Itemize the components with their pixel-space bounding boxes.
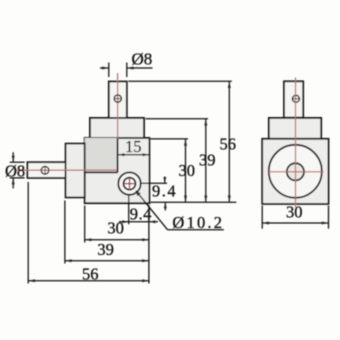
svg-text:39: 39 [97, 240, 114, 259]
svg-text:30: 30 [286, 203, 303, 222]
svg-text:Ø8: Ø8 [5, 162, 25, 181]
svg-text:Ø8: Ø8 [132, 50, 153, 69]
svg-text:15: 15 [125, 137, 142, 156]
svg-text:9.4: 9.4 [130, 205, 152, 224]
svg-text:9.4: 9.4 [152, 182, 177, 201]
svg-text:56: 56 [82, 265, 99, 284]
svg-text:39: 39 [199, 151, 216, 170]
svg-text:56: 56 [220, 135, 237, 154]
svg-text:30: 30 [107, 219, 124, 238]
svg-text:30: 30 [179, 161, 196, 180]
svg-text:Ø10.2: Ø10.2 [172, 213, 224, 232]
